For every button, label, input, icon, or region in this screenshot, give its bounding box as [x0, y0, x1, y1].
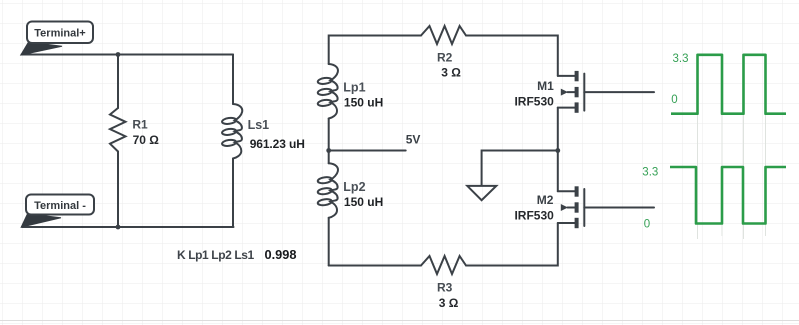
svg-text:150 uH: 150 uH [344, 95, 383, 109]
wire R1 branch bottom [117, 152, 119, 228]
svg-text:3.3: 3.3 [673, 53, 689, 65]
svg-text:Terminal -: Terminal - [34, 200, 86, 212]
wire ground branch [482, 151, 558, 185]
svg-text:5V: 5V [406, 133, 421, 147]
transistor M2 [558, 186, 654, 228]
wire Ls1 branch top [232, 55, 234, 105]
faint transition lines of waveform plots [698, 55, 766, 239]
svg-text:70 Ω: 70 Ω [133, 133, 160, 147]
darker gridline bottom [0, 320, 799, 322]
junction node 5V [326, 148, 331, 153]
junction node M1/M2 [555, 148, 560, 153]
svg-text:Lp1: Lp1 [343, 81, 365, 95]
svg-text:M1: M1 [537, 79, 554, 93]
svg-text:961.23 uH: 961.23 uH [250, 137, 305, 151]
wire left top [22, 54, 234, 56]
Terminal+ flag [21, 22, 93, 56]
wire top to M1 drain [466, 36, 558, 76]
inductor Ls1 [222, 117, 237, 125]
svg-text:R3: R3 [437, 280, 453, 294]
wire left bottom [22, 226, 234, 228]
wire bottom right segment [466, 223, 558, 266]
wire bottom left segment [329, 265, 421, 267]
wire between Lp1 and 5V node [328, 119, 330, 164]
wire middle left rail top [329, 36, 421, 65]
Terminal- flag [21, 195, 94, 228]
svg-text:Lp2: Lp2 [343, 180, 365, 194]
svg-text:0: 0 [644, 218, 650, 230]
svg-text:R2: R2 [437, 50, 453, 64]
wire M1 source to junction to M2 drain [557, 108, 559, 192]
svg-text:IRF530: IRF530 [514, 208, 554, 222]
svg-text:0: 0 [671, 94, 677, 106]
svg-text:3.3: 3.3 [642, 166, 658, 178]
junction node top-left [116, 52, 121, 57]
svg-text:0.998: 0.998 [265, 247, 297, 262]
svg-text:3 Ω: 3 Ω [439, 296, 459, 310]
svg-text:Terminal+: Terminal+ [34, 28, 85, 40]
svg-text:K Lp1 Lp2 Ls1: K Lp1 Lp2 Ls1 [177, 248, 255, 262]
inductor Lp1 [317, 77, 332, 85]
svg-text:150 uH: 150 uH [344, 195, 383, 209]
wire R1 branch top [117, 55, 119, 109]
transistor M1 [558, 71, 654, 113]
junction node bottom-left [116, 225, 121, 230]
wire Lp2 to bottom [328, 218, 330, 266]
waveform trace bottom (M2 gate) [670, 167, 786, 224]
resistor R1 [110, 108, 126, 152]
svg-text:R1: R1 [132, 118, 148, 132]
inductor Lp2 [317, 176, 332, 184]
svg-text:M2: M2 [537, 193, 554, 207]
svg-text:Ls1: Ls1 [248, 118, 270, 132]
resistor R2 [421, 26, 466, 44]
resistor R3 [421, 256, 466, 274]
ground [467, 186, 496, 200]
wire Ls1 branch bottom [232, 159, 234, 228]
wire 5V stub [329, 150, 406, 152]
svg-text:IRF530: IRF530 [514, 94, 554, 108]
waveform trace top (M1 gate) [671, 55, 786, 114]
svg-text:3 Ω: 3 Ω [441, 65, 461, 79]
